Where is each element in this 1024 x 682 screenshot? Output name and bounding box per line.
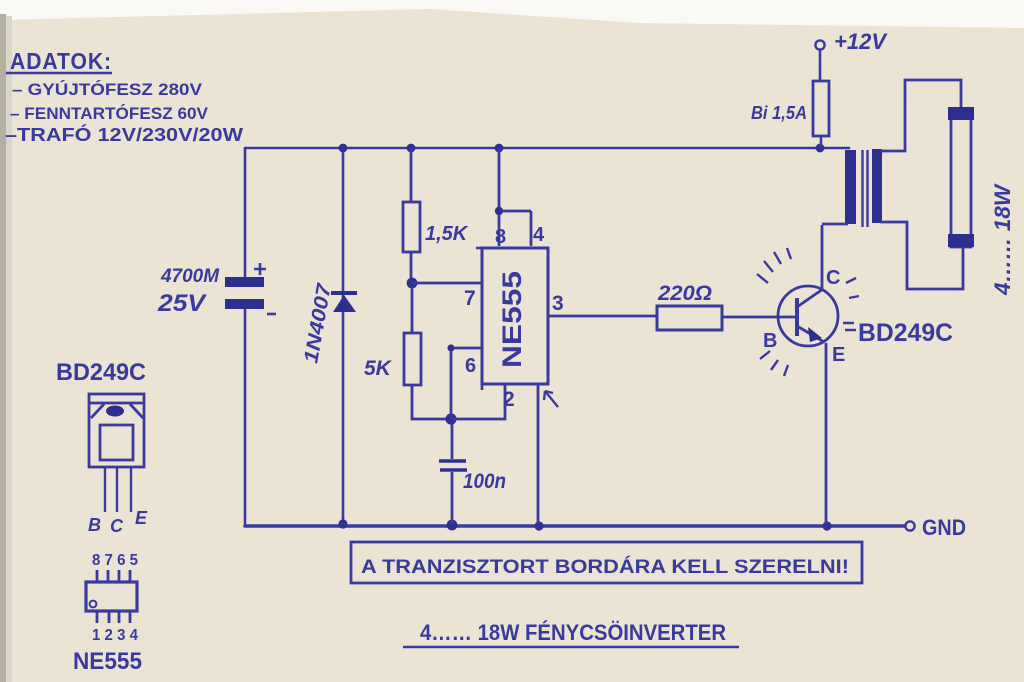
node E gnd rail at diode	[338, 519, 347, 528]
wire pin 3	[548, 315, 657, 318]
transistor Q1 BD249C	[778, 225, 838, 524]
svg-text:B: B	[88, 515, 101, 535]
node F gnd rail at 100n	[447, 520, 458, 531]
wire secondary top to tube	[880, 80, 961, 151]
svg-text:E: E	[135, 508, 148, 528]
svg-text:8: 8	[495, 226, 506, 248]
capacitor C1 4700uF plates	[225, 277, 264, 287]
pin 1 arrow mark	[544, 391, 558, 407]
wire pin 7	[412, 282, 482, 285]
svg-text:6: 6	[465, 355, 476, 377]
svg-text:Bi 1,5A: Bi 1,5A	[751, 103, 807, 123]
svg-text:7: 7	[464, 287, 476, 310]
left page edge shadow	[0, 14, 6, 682]
transformer T1 core	[863, 150, 868, 227]
svg-text:4…… 18W FÉNYCSÖINVERTER: 4…… 18W FÉNYCSÖINVERTER	[420, 620, 726, 645]
node D top rail at fuse	[816, 144, 825, 153]
GND terminal	[905, 521, 914, 530]
transistor rays	[757, 248, 859, 376]
note box	[351, 542, 862, 583]
svg-text:220Ω: 220Ω	[657, 282, 712, 305]
svg-text:GND: GND	[922, 515, 966, 540]
transistor name =BD249C	[843, 323, 856, 330]
resistor R3 220 ohm	[657, 306, 722, 330]
header underline	[6, 72, 112, 75]
svg-text:4700M: 4700M	[160, 266, 220, 287]
node C top rail at pin8	[495, 144, 504, 153]
node K junction R2/C2/pin2/pin6	[445, 413, 456, 424]
capacitor C1 plus sign	[254, 263, 266, 275]
op-amp U1 NE555 box	[482, 248, 548, 384]
svg-text:C: C	[826, 267, 840, 289]
svg-text:A TRANZISZTORT BORDÁRA KELL SZ: A TRANZISZTORT BORDÁRA KELL SZERELNI!	[361, 556, 849, 578]
svg-text:+12V: +12V	[834, 29, 888, 54]
node B top rail at 1.5K	[407, 144, 416, 153]
svg-text:5K: 5K	[364, 357, 393, 380]
node J junction R1/R2/pin7	[407, 278, 418, 289]
svg-text:NE555: NE555	[73, 648, 142, 675]
svg-text:BD249C: BD249C	[858, 319, 953, 347]
svg-text:4…… 18W: 4…… 18W	[990, 183, 1015, 296]
wire pin 2	[453, 384, 505, 419]
svg-text:E: E	[832, 344, 845, 366]
svg-text:BD249C: BD249C	[56, 359, 146, 386]
svg-text:100n: 100n	[463, 470, 506, 493]
svg-text:C: C	[110, 516, 124, 536]
node G gnd rail at pin1	[534, 521, 543, 530]
svg-text:4: 4	[533, 224, 545, 246]
svg-text:1,5K: 1,5K	[425, 223, 469, 245]
wire primary bottom to collector	[822, 223, 848, 226]
node H gnd rail at emitter	[822, 521, 831, 530]
svg-text:B: B	[763, 330, 777, 352]
svg-text:NE555: NE555	[497, 271, 527, 368]
svg-text:– FENNTARTÓFESZ 60V: – FENNTARTÓFESZ 60V	[10, 104, 209, 123]
capacitor C2 100n	[439, 424, 467, 524]
node A top rail at diode	[339, 144, 348, 153]
capacitor C1 minus sign	[267, 313, 276, 316]
wire R3 to base	[722, 316, 796, 319]
wire top +12V rail	[245, 147, 849, 150]
header ADATOK:	[5, 48, 243, 145]
svg-text:25V: 25V	[157, 290, 207, 317]
svg-text:– GYÚJTÓFESZ 280V: – GYÚJTÓFESZ 280V	[12, 80, 203, 99]
transformer T1 primary winding	[845, 150, 856, 224]
fuse F1	[815, 40, 824, 49]
transformer T1 secondary winding	[872, 149, 882, 223]
wire left vertical branch	[244, 148, 247, 526]
wire secondary bottom to tube	[880, 222, 963, 289]
svg-text:2: 2	[503, 388, 515, 411]
wire GND rail	[245, 524, 905, 528]
scanner top band	[0, 0, 1024, 28]
svg-text:1 2 3 4: 1 2 3 4	[92, 627, 138, 644]
wire pin 8 and pin 4 loop	[499, 148, 531, 246]
svg-text:3: 3	[552, 292, 564, 315]
fluorescent tube 18W	[951, 113, 971, 247]
wire diode branch	[342, 148, 345, 522]
svg-text:–TRAFÓ 12V/230V/20W: –TRAFÓ 12V/230V/20W	[5, 124, 243, 145]
wire pin 1 to gnd	[537, 384, 540, 524]
wire pin 6 loop	[451, 348, 482, 419]
resistor R1 1.5K	[403, 148, 420, 280]
svg-text:8 7 6 5: 8 7 6 5	[92, 552, 138, 569]
diode D1 1N4007 symbol	[300, 281, 357, 365]
svg-text:ADATOK:: ADATOK:	[10, 48, 112, 74]
resistor R2 5K	[404, 287, 450, 419]
